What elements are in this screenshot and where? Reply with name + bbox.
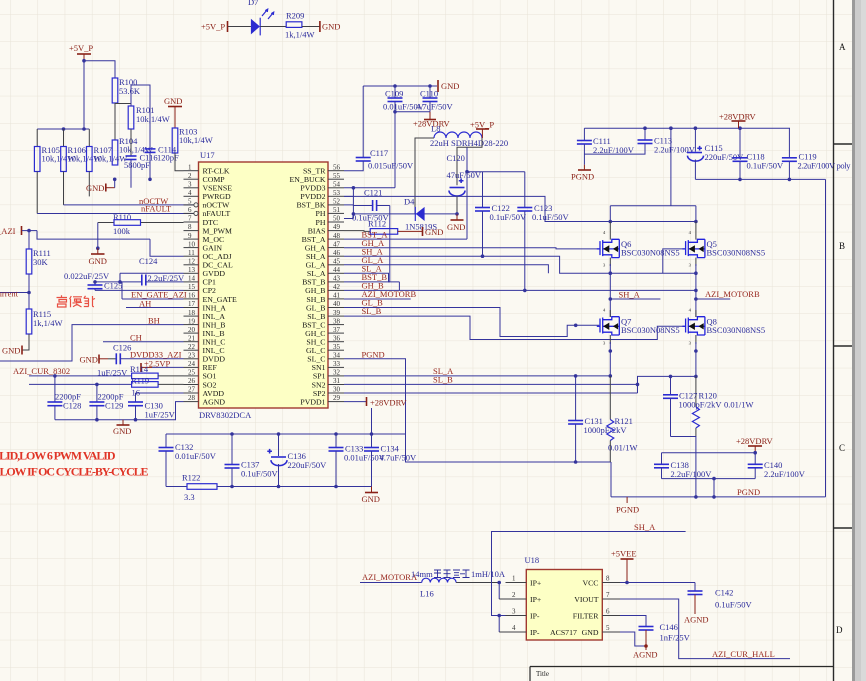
svg-text:R112: R112 [368, 219, 386, 229]
svg-text:14: 14 [188, 275, 196, 283]
pin 20 INL_B [184, 332, 199, 334]
wire +5V_P to D7 anode [228, 26, 251, 28]
svg-text:120pF: 120pF [157, 153, 179, 163]
power port GND (R112) [398, 230, 422, 232]
svg-text:5: 5 [188, 198, 192, 206]
svg-text:1000pF/2kV: 1000pF/2kV [584, 425, 628, 435]
wire FILTER to C146 [620, 616, 646, 627]
svg-text:1000pF/2kV: 1000pF/2kV [679, 400, 723, 410]
free text 14mm磁环电感1mH/10A [411, 569, 506, 579]
resistor R101 10k,1/4W [128, 105, 170, 129]
pin 28 AGND [184, 401, 199, 403]
capacitor C142 0.1uF/50V [688, 583, 753, 615]
capacitor C122 0.1uF/50V [475, 172, 527, 257]
svg-text:ACS717: ACS717 [550, 628, 577, 637]
svg-text:27: 27 [188, 386, 196, 394]
g:capblock [159, 408, 417, 504]
wire R110 left down to GND [97, 223, 99, 249]
junction C115 [694, 126, 698, 130]
resistor R122 3.3 [182, 473, 217, 503]
g:frame [530, 0, 866, 681]
junction C134 top [370, 432, 374, 436]
svg-text:Current: Current [0, 289, 19, 299]
resistor R103 10k,1/4W [172, 127, 213, 154]
junction drain B [694, 220, 698, 224]
wire pin9 jog down to pin11 [150, 239, 184, 256]
svg-text:8: 8 [188, 223, 192, 231]
svg-text:BSC030N08NS5: BSC030N08NS5 [707, 248, 766, 258]
svg-text:3.3: 3.3 [184, 492, 195, 502]
svg-text:7: 7 [188, 215, 192, 223]
junction CP1 at C125 [93, 280, 97, 284]
svg-text:AZI_MOTORB: AZI_MOTORB [705, 289, 760, 299]
svg-text:1nF/25V: 1nF/25V [660, 633, 691, 643]
junction C136 top [277, 432, 281, 436]
rail 10k pullups top [37, 128, 89, 130]
svg-text:L16: L16 [420, 589, 434, 599]
svg-text:GND: GND [164, 96, 182, 106]
svg-text:9: 9 [188, 232, 192, 240]
wire +5V_P to R100 top [84, 61, 115, 78]
pin 3 VSENSE [184, 187, 199, 189]
svg-text:1mH/10A: 1mH/10A [471, 569, 506, 579]
pin 46 SH_A [328, 255, 344, 257]
wire IP+ pair link [498, 583, 500, 600]
svg-text:U17: U17 [200, 150, 215, 160]
capacitor C110 4.7uF/50V [416, 86, 453, 112]
wire Q8 source to SP bus [695, 342, 697, 376]
junction +5V_P top [82, 59, 86, 63]
wire AH to pin17 [126, 307, 184, 309]
wire +28VDRV feed to cap block [371, 408, 373, 434]
resistor R120 0.01/1W (zigzag) [692, 391, 753, 437]
resistor R110 100k [98, 212, 184, 236]
svg-text:40: 40 [333, 300, 341, 308]
capacitor C115 220uF/50V electrolytic [687, 128, 744, 179]
svg-text:C129: C129 [105, 401, 123, 411]
wire R107 bottom to pin4 row [88, 172, 90, 197]
svg-text:2.2uF/100V: 2.2uF/100V [671, 469, 713, 479]
pin 12 DC_CAL [184, 264, 199, 266]
pin 5 nOCTW (inverted) [184, 204, 194, 206]
svg-text:0.01uF/50V: 0.01uF/50V [175, 451, 217, 461]
pin 37 GH_C [328, 332, 344, 334]
wire SL_A staircase [344, 273, 399, 282]
pin 7 VIOUT [602, 598, 620, 600]
svg-text:38: 38 [333, 317, 341, 325]
pin 15 CP2 [184, 289, 199, 291]
LED D7 [248, 0, 274, 35]
svg-text:C128: C128 [63, 401, 81, 411]
svg-text:43: 43 [333, 275, 341, 283]
capacitor C125 0.022uF/25V [64, 271, 122, 291]
pin 44 SL_A [328, 272, 344, 274]
svg-text:SH_A: SH_A [619, 290, 641, 300]
wire R121 bottom to PGND drop [610, 462, 612, 497]
pin 5 GND [602, 631, 620, 633]
svg-text:28: 28 [188, 394, 196, 402]
wire GND tap up to pin2 row [114, 179, 116, 187]
power port GND (top) [437, 80, 439, 92]
wire PH bus [353, 213, 457, 215]
svg-text:GND: GND [322, 22, 340, 32]
svg-text:7: 7 [606, 591, 610, 599]
svg-text:26: 26 [188, 377, 196, 385]
wire C114 bottom to pin2 row [149, 152, 151, 179]
svg-text:37: 37 [333, 326, 341, 334]
svg-text:GND: GND [80, 355, 98, 365]
svg-text:PGND: PGND [362, 350, 385, 360]
pin 14 CP1 [184, 281, 199, 283]
svg-text:A: A [839, 42, 846, 52]
title block top edge [530, 667, 834, 681]
svg-text:AGND: AGND [633, 650, 658, 660]
svg-text:R120: R120 [699, 391, 717, 401]
svg-text:C126: C126 [113, 343, 131, 353]
svg-text:IP-: IP- [530, 612, 540, 621]
wire D7 cathode to R209 [260, 26, 286, 28]
junction SP1 at Q7 column [609, 374, 613, 378]
svg-text:AH: AH [139, 299, 151, 309]
pin 3 IP- [506, 615, 527, 617]
junction rail R106 [62, 127, 66, 131]
svg-text:1uF/25V: 1uF/25V [145, 410, 176, 420]
pin 56 SS_TR [328, 170, 344, 172]
pin 16 EN_GATE [184, 298, 199, 300]
junction C136 bottom [277, 485, 281, 489]
svg-text:0.1uF/50V: 0.1uF/50V [490, 212, 527, 222]
junction GH_B row end [694, 289, 698, 293]
wire R115 bottom to GND [23, 334, 30, 350]
pin 8 M_PWM [184, 230, 199, 232]
junction C120/PH/GND [455, 212, 459, 216]
resistor R107 10k,1/4W [87, 145, 128, 172]
resistor R112 (BIAS) [344, 219, 398, 235]
junction C137 bottom [230, 485, 234, 489]
svg-text:33: 33 [333, 360, 341, 368]
wire pin53 PVDD2 to drain rail [344, 196, 696, 221]
wire nFAULT (R105 to pin6) [37, 213, 193, 215]
pin 38 BST_C [328, 324, 344, 326]
pin 6 nFAULT (inverted) [184, 212, 194, 214]
junction C113 [643, 126, 647, 130]
capacitor C111 2.2uF/100V [577, 128, 635, 165]
svg-text:100k: 100k [113, 226, 131, 236]
svg-text:35: 35 [333, 343, 341, 351]
svg-text:AZI_MOTORA: AZI_MOTORA [362, 572, 418, 582]
junction C131 top [574, 374, 578, 378]
g:warn [0, 449, 149, 479]
svg-text:3: 3 [188, 181, 192, 189]
svg-text:GND: GND [362, 494, 380, 504]
svg-text:AGND: AGND [203, 397, 226, 406]
pin 6 FILTER [602, 615, 620, 617]
wire C116 bottom to pin3 row [130, 160, 132, 188]
wire Q5 gate feed [663, 249, 685, 273]
capacitor C137 0.1uF/50V [225, 434, 279, 487]
svg-text:PGND: PGND [737, 487, 760, 497]
svg-text:30: 30 [333, 386, 341, 394]
wire GH_A to Q6 gate [344, 248, 599, 249]
pin 23 DVDD [184, 358, 199, 360]
junction C137 top [230, 432, 234, 436]
svg-text:10: 10 [188, 240, 196, 248]
svg-text:45: 45 [333, 257, 341, 265]
svg-text:5800pF: 5800pF [124, 160, 150, 170]
svg-text:2.2uF/100V poly: 2.2uF/100V poly [798, 161, 852, 171]
pin 8 VCC [602, 582, 620, 584]
pin 18 INL_A [184, 315, 199, 317]
junction C128 top [53, 374, 57, 378]
wire SP1 bus [344, 375, 610, 377]
wire PH up to L8 left [415, 138, 434, 214]
svg-text:3: 3 [512, 608, 516, 616]
wire BH net to sheet edge [0, 325, 184, 361]
wire AZI_MOTORA underline [360, 582, 422, 584]
pin 32 SP1 [328, 375, 344, 377]
free text 高使能 (CJK strokes) [57, 295, 96, 307]
svg-text:49: 49 [333, 223, 341, 231]
wire R101 top to C114 top [131, 85, 150, 149]
pin 42 GH_B [328, 289, 344, 291]
svg-text:R122: R122 [182, 473, 200, 483]
wire GL_B to Q7 gate [344, 308, 599, 337]
junction GVDD/CP1 [118, 280, 122, 284]
junction SH_A label stub [609, 297, 613, 301]
svg-text:46: 46 [333, 249, 341, 257]
pin 33 SN1 [328, 366, 344, 368]
svg-text:54: 54 [333, 181, 341, 189]
g:topright [571, 112, 851, 497]
svg-text:2.2uF/100V: 2.2uF/100V [593, 145, 635, 155]
svg-text:BSC030N08NS5: BSC030N08NS5 [621, 325, 680, 335]
capacitor C113 2.2uF/100V [584, 128, 695, 154]
pin 22 INL_C [184, 349, 199, 351]
wire SH_A label underline [610, 298, 660, 300]
svg-text:U18: U18 [525, 555, 540, 565]
wire R100 bottom to R104 / R101 [115, 103, 131, 140]
svg-text:Title: Title [536, 670, 549, 678]
junction C146 bottom [644, 644, 648, 648]
svg-text:39: 39 [333, 309, 341, 317]
pin 21 INH_C [184, 341, 199, 343]
op-amp U18 ACS717 body [526, 570, 602, 641]
capacitor C124 2.2uF/25V (series on CP1) [139, 256, 185, 286]
svg-text:IP+: IP+ [530, 595, 542, 604]
pin 30 SP2 [328, 392, 344, 394]
svg-text:24: 24 [188, 360, 196, 368]
g:leftmid [0, 196, 194, 436]
svg-text:VALID,LOW 6 PWM VALID: VALID,LOW 6 PWM VALID [0, 449, 116, 463]
capacitor C109 0.01uF/50V [383, 86, 425, 188]
junction +5VEE [625, 581, 629, 585]
wire C127/R120 bottom link [671, 437, 696, 497]
junction C138/C140 drop [712, 495, 716, 499]
wire GL_A row step into mid rail [344, 265, 548, 273]
diode D4 1N5819S [404, 197, 437, 232]
junction drain A [609, 220, 613, 224]
junction cap rail [753, 451, 757, 455]
svg-text:+5V_P: +5V_P [470, 120, 494, 130]
wire GH_B long row [344, 282, 696, 291]
svg-text:31: 31 [333, 377, 341, 385]
capacitor C119 2.2uF/100V poly [782, 128, 851, 179]
power port GND (buck) [456, 214, 458, 220]
pin 36 SH_C [328, 341, 344, 343]
power port +2.5VP on pin24 [140, 363, 142, 372]
resistor R104 10k,1/4W [112, 136, 153, 165]
pin 52 BST_BK [328, 204, 344, 206]
svg-text:IP+: IP+ [530, 579, 542, 588]
svg-text:GND: GND [447, 222, 465, 232]
svg-text:BSC030N08NS5: BSC030N08NS5 [707, 325, 766, 335]
resistor R121 0.01/1W (zigzag) [607, 416, 638, 462]
svg-text:0.015uF/50V: 0.015uF/50V [368, 161, 414, 171]
svg-text:AZI_CUR_8302: AZI_CUR_8302 [13, 366, 70, 376]
wire +28VDRV top rail [584, 127, 790, 129]
capacitor C140 2.2uF/100V [748, 453, 806, 479]
wire PWM_AZI to jog [22, 230, 37, 232]
svg-text:VCC: VCC [582, 579, 598, 588]
capacitor C116 5800pF [124, 153, 179, 171]
sheet right edge [852, 0, 866, 681]
svg-text:36: 36 [333, 334, 341, 342]
wire R105 bottom to nFAULT row [36, 172, 38, 214]
pin 55 EN_BUCK [328, 178, 344, 180]
svg-text:18: 18 [188, 309, 196, 317]
pin 26 SO2 [184, 384, 199, 386]
svg-text:13: 13 [188, 266, 196, 274]
svg-text:0.1uF/50V: 0.1uF/50V [715, 600, 752, 610]
svg-text:0.01/1W: 0.01/1W [724, 400, 754, 410]
inductor L16 [420, 578, 456, 598]
capacitor C132 0.01uF/50V [159, 434, 217, 487]
power port PGND (C111) [583, 165, 585, 170]
pin 9 M_OC [184, 238, 199, 240]
svg-text:12: 12 [188, 257, 196, 265]
junction Q8 source [694, 349, 698, 353]
capacitor C126 1uF/25V (series) [97, 343, 131, 378]
wire SL_B to Q8 gate [344, 316, 685, 339]
svg-text:50: 50 [333, 215, 341, 223]
pin 25 SO1 [184, 375, 199, 377]
pin 29 PVDD1 [328, 401, 344, 403]
inductor L8 22uH SDRH4D28-220 [430, 124, 508, 149]
wire Q7 source to SP1 bus [609, 342, 611, 376]
capacitor C117 0.015uF/50V [344, 86, 414, 171]
wire L16 to IP+ pins [456, 582, 499, 584]
wire CP1 run left [95, 281, 142, 283]
svg-text:VIOUT: VIOUT [574, 595, 598, 604]
svg-text:53: 53 [333, 189, 341, 197]
svg-text:D7: D7 [248, 0, 258, 7]
wire BST_B stub [344, 281, 390, 283]
wire C125 to pin15 CP2 [95, 289, 184, 291]
junction Current node [27, 291, 31, 295]
resistor R115 1k,1/4W [26, 309, 62, 334]
junction R111 top [27, 229, 31, 233]
wire drain feed down [610, 128, 696, 221]
svg-text:0.1uF/50V: 0.1uF/50V [532, 212, 569, 222]
svg-text:+: + [268, 447, 272, 456]
junction C109 top [393, 84, 397, 88]
svg-text:25: 25 [188, 369, 196, 377]
svg-text:0.01/1W: 0.01/1W [608, 443, 638, 453]
pin 54 PVDD3 [328, 187, 344, 189]
svg-text:IP-: IP- [530, 628, 540, 637]
junction cap bottom [712, 477, 716, 481]
pin 17 INH_A [184, 307, 199, 309]
pin 39 SL_B [328, 315, 344, 317]
svg-text:32: 32 [333, 369, 341, 377]
junction IP- pair [497, 614, 501, 618]
svg-text:D4: D4 [404, 197, 415, 207]
wire jog down to pin9 row / wire to pin9 [37, 231, 150, 240]
resistor R106 10k,1/4W [61, 145, 102, 172]
wire snubber cap bottom rail [662, 479, 756, 497]
pin 40 GL_B [328, 307, 344, 309]
svg-text:48: 48 [333, 232, 341, 240]
junction Q7 source [609, 349, 613, 353]
svg-text:GND: GND [113, 426, 131, 436]
wire C121 to BST_B column [389, 206, 391, 282]
junction GND tap [96, 246, 100, 250]
transistor Q8 BSC030N08NS5 [682, 308, 765, 346]
junction C114/pin2 [148, 178, 152, 182]
svg-text:1: 1 [188, 163, 192, 171]
power port +28VDRV (buck input) [429, 112, 431, 120]
svg-text:8: 8 [606, 575, 610, 583]
pin 51 PH [328, 212, 344, 214]
svg-text:AGND: AGND [684, 615, 709, 625]
svg-text:PVDD1: PVDD1 [300, 397, 325, 406]
svg-text:220uF/50V: 220uF/50V [288, 460, 328, 470]
svg-text:6: 6 [606, 608, 610, 616]
wire +5V_P column down to rail [83, 61, 85, 129]
junction C133 bottom [334, 485, 338, 489]
junction link C109 [393, 110, 397, 114]
wire stub R105 top [36, 129, 38, 147]
resistor R119 16 [131, 376, 158, 398]
pin 41 SH_B [328, 298, 344, 300]
svg-text:R121: R121 [615, 416, 633, 426]
svg-text:FILTER: FILTER [573, 612, 600, 621]
wire cap block bottom rail [166, 486, 187, 488]
svg-text:GND: GND [86, 183, 104, 193]
svg-text:22uH SDRH4D28-220: 22uH SDRH4D28-220 [430, 138, 508, 148]
wire SH_A to IP- pins [492, 580, 506, 616]
pin 27 AVDD [184, 392, 199, 394]
wire CH to pin21 [103, 341, 184, 343]
wire snubber cap top rail [662, 452, 756, 454]
wire SL_C/PGND down to bottom bus [344, 359, 611, 462]
wire IP- pair link [498, 616, 500, 633]
pin 10 GAIN [184, 247, 199, 249]
wire PH pins 51/50 link [344, 205, 353, 219]
svg-text:4: 4 [188, 189, 192, 197]
resistor R111 30K [26, 248, 51, 274]
svg-text:42: 42 [333, 283, 341, 291]
svg-text:+: + [459, 176, 463, 185]
svg-text:nFAULT: nFAULT [141, 204, 172, 214]
g:buses [344, 230, 698, 464]
svg-text:30K: 30K [33, 257, 49, 267]
capacitor C121 0.1uF/50V (series on BST_BK) [352, 188, 390, 223]
power port +28VDRV (PVDD1 pin29) [344, 401, 366, 403]
g:topmid [344, 80, 696, 292]
wire SH_B label stub [344, 298, 411, 300]
pin 48 BST_A [328, 238, 344, 240]
